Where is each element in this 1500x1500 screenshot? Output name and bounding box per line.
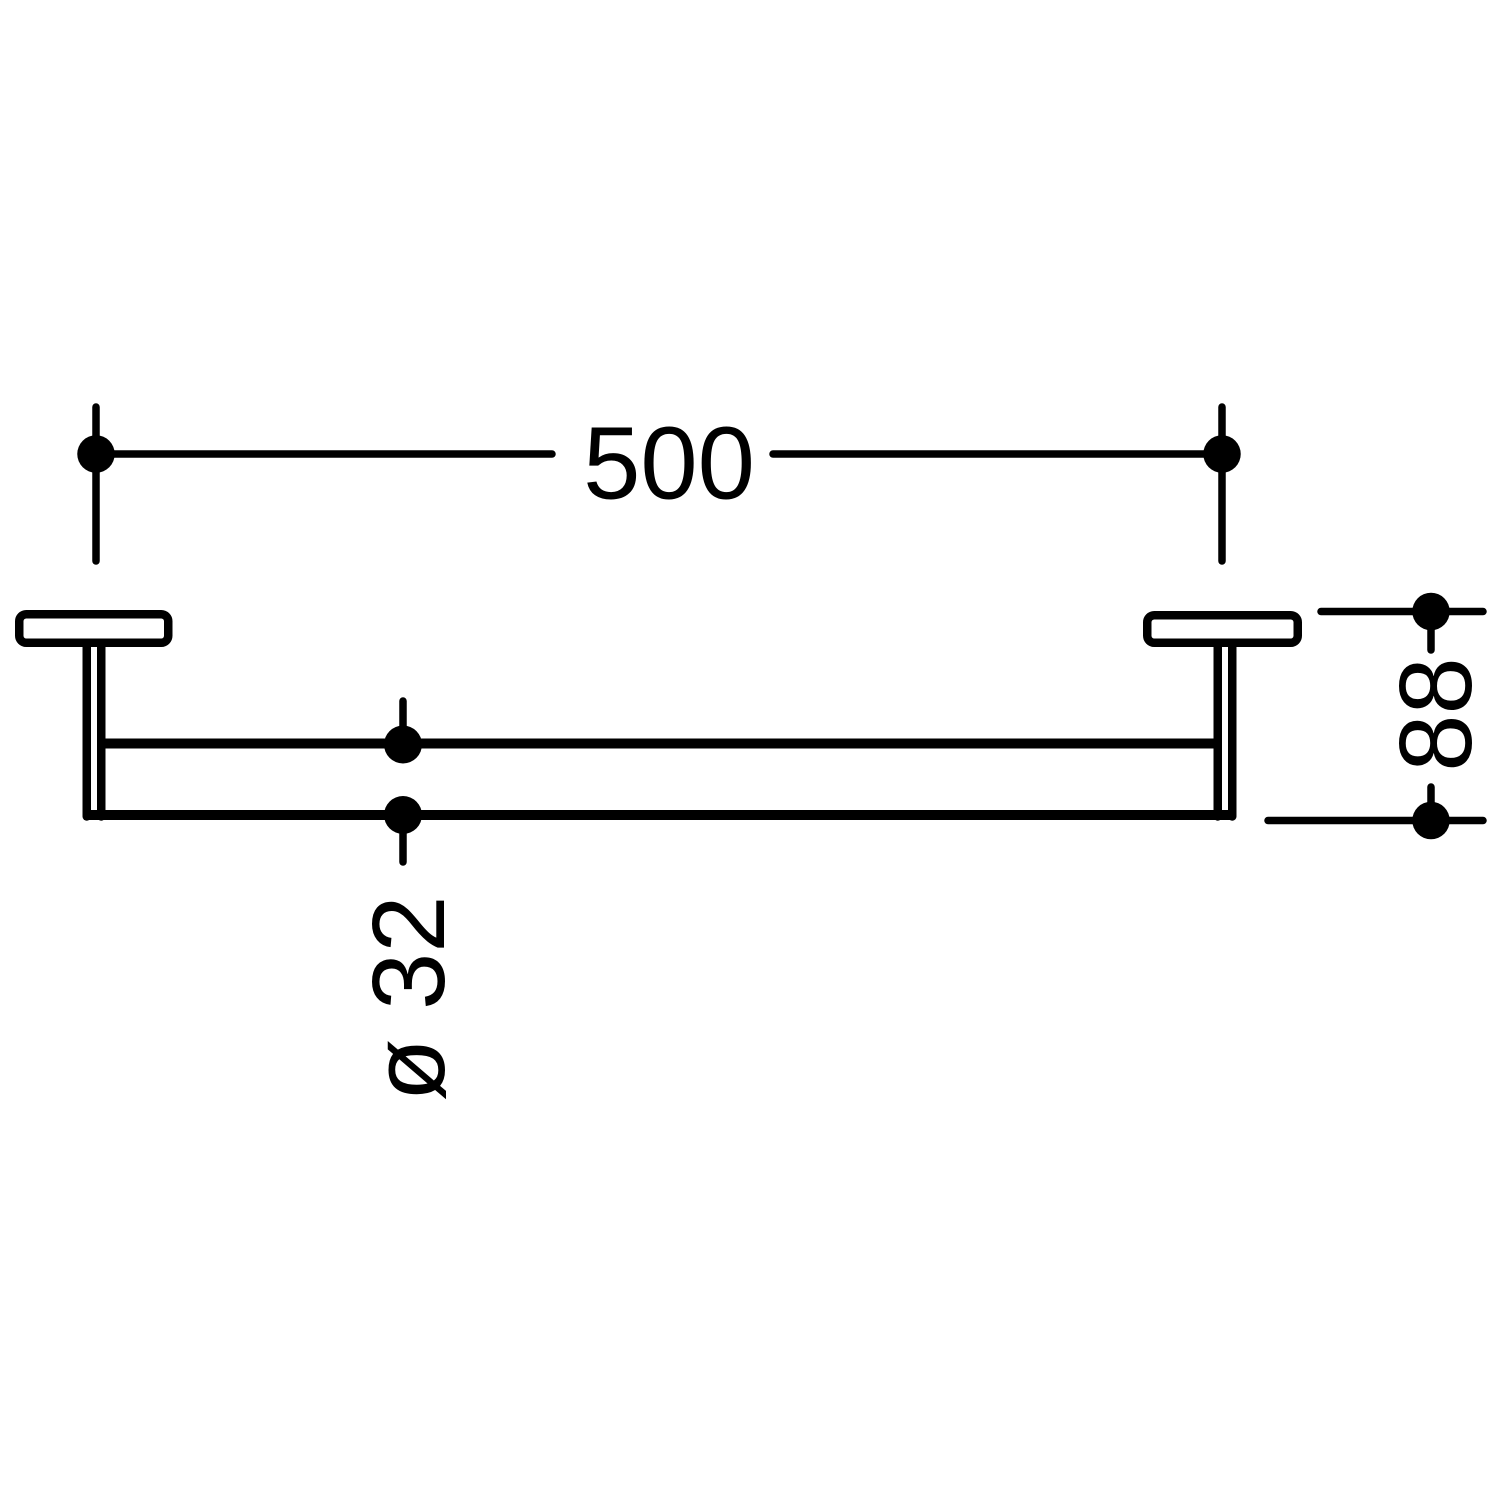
- diameter dot on tube bottom edge: [384, 796, 422, 834]
- svg-text:88: 88: [1378, 657, 1493, 772]
- dimension line 500 left segment: [96, 450, 552, 458]
- wall plate left: [19, 614, 168, 643]
- extension tick left (500 dim): [92, 407, 100, 561]
- wall post right inner line: [1214, 643, 1223, 817]
- wall plate right: [1147, 615, 1298, 643]
- dimension endpoint dot right (500): [1203, 435, 1241, 473]
- bar tube top edge: [101, 739, 1218, 749]
- bar tube bottom edge: [84, 810, 1234, 820]
- wall post right outer line: [1228, 643, 1237, 817]
- dimension endpoint dot left (500): [77, 435, 115, 473]
- svg-text:500: 500: [583, 406, 755, 521]
- diameter leader tick below bottom dot: [399, 815, 407, 862]
- wall post left outer line: [83, 643, 92, 817]
- diameter leader tick above top dot: [399, 701, 407, 744]
- dimension line 500 right segment: [773, 450, 1222, 458]
- diameter dot on tube top edge: [384, 726, 422, 764]
- dimension dot bottom (88): [1412, 802, 1450, 840]
- svg-text:ø 32: ø 32: [351, 895, 466, 1101]
- dimension tick above bottom dot (88): [1427, 787, 1435, 821]
- wall post left inner line: [97, 643, 106, 817]
- dimension dot top (88): [1412, 593, 1450, 631]
- dimension tick below top dot (88): [1427, 612, 1435, 651]
- extension tick right (500 dim): [1218, 407, 1226, 561]
- extension line top (88 dim): [1321, 608, 1483, 616]
- extension line bottom (88 dim): [1268, 817, 1483, 825]
